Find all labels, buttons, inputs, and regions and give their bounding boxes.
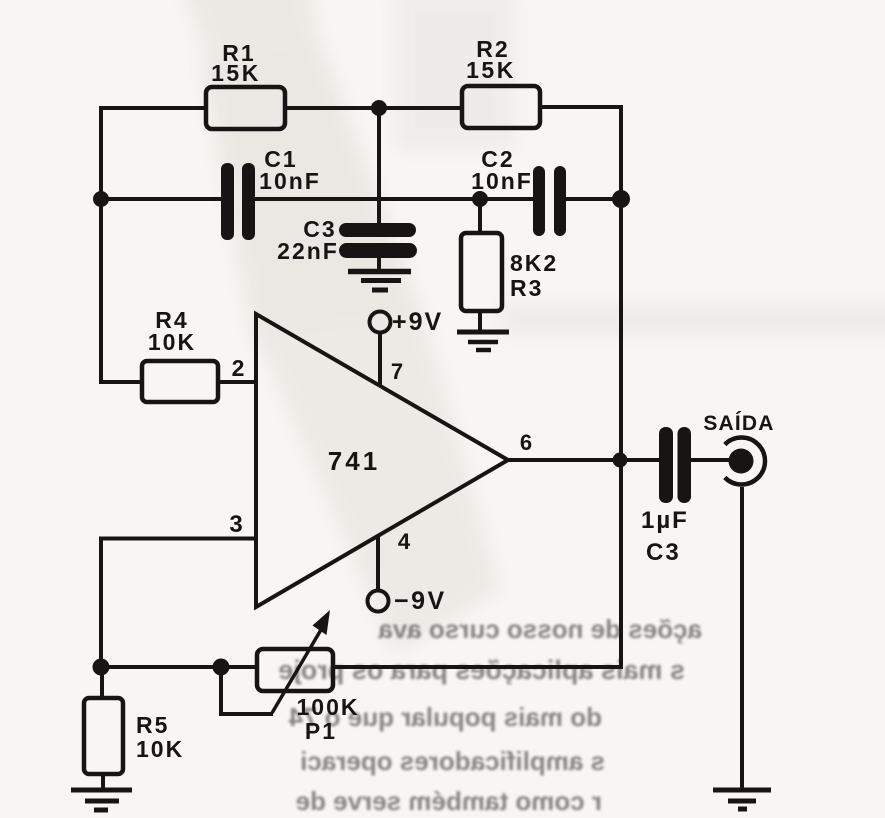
wire R3 ground stub <box>478 310 482 331</box>
wire right vertical feedback <box>619 106 623 669</box>
svg-text:10K: 10K <box>148 329 196 355</box>
node junction top rail <box>371 100 387 116</box>
ground below jack <box>713 790 771 809</box>
wire C3 ground stub <box>377 252 381 269</box>
node junction P1 wiper <box>213 659 230 676</box>
node junction right rail2 <box>612 190 630 208</box>
resistor R5 <box>84 698 184 774</box>
ground below R5 <box>71 790 132 810</box>
wire R3 top lead <box>478 199 482 234</box>
svg-text:s amplificadores operaci: s amplificadores operaci <box>300 746 605 776</box>
svg-text:7: 7 <box>391 359 403 384</box>
op-amp U1 741 <box>229 314 532 607</box>
capacitor C3 1uF output <box>641 427 691 566</box>
svg-text:15K: 15K <box>211 60 261 86</box>
svg-text:22nF: 22nF <box>277 238 339 264</box>
svg-text:10nF: 10nF <box>259 168 321 194</box>
svg-text:P1: P1 <box>305 718 337 744</box>
capacitor C1 <box>221 146 321 240</box>
bleed-through text from reverse page (mirrored) <box>278 614 702 816</box>
output jack SAIDA <box>703 412 774 484</box>
ground below C3 <box>348 272 411 291</box>
-9V supply terminal <box>368 587 447 615</box>
svg-text:1µF: 1µF <box>641 507 689 534</box>
wire bottom rail right <box>332 665 623 669</box>
capacitor C3 22nF <box>277 216 417 264</box>
+9V supply terminal <box>370 308 444 336</box>
node junction left rail2 <box>93 191 109 207</box>
svg-text:SAÍDA: SAÍDA <box>703 412 774 435</box>
wire R4 right lead to pin 2 <box>218 380 254 384</box>
wire pin 3 lead <box>101 537 254 541</box>
wire top rail right <box>540 105 623 109</box>
wire second rail right <box>565 197 621 201</box>
wire P1 wiper loop <box>221 668 273 714</box>
resistor R3 <box>461 233 558 311</box>
paper shading wash <box>180 0 885 655</box>
wire pin 7 supply <box>378 333 382 385</box>
svg-text:4: 4 <box>398 529 411 554</box>
wire output lead <box>506 458 659 462</box>
wire R4 left lead <box>99 380 142 384</box>
wire top rail left <box>100 106 206 110</box>
resistor R2 <box>462 36 540 128</box>
svg-text:741: 741 <box>328 446 380 476</box>
node junction output <box>613 453 628 468</box>
svg-text:100K: 100K <box>297 694 360 720</box>
potentiometer P1 <box>257 610 359 744</box>
wire R5 ground stub <box>101 773 105 790</box>
svg-text:6: 6 <box>520 430 532 455</box>
node junction C2-R3 <box>472 191 488 207</box>
wire left vertical lower <box>99 537 103 669</box>
wire left vertical upper <box>99 106 103 384</box>
capacitor C2 <box>471 146 566 236</box>
svg-text:10nF: 10nF <box>471 168 533 194</box>
wire bottom rail left <box>99 665 258 669</box>
node junction bottom left <box>93 659 110 676</box>
svg-text:R5: R5 <box>136 712 169 738</box>
svg-text:15K: 15K <box>466 57 516 83</box>
svg-text:2: 2 <box>232 355 245 381</box>
wire jack ground <box>740 487 744 790</box>
svg-text:s mais aplicações para os proj: s mais aplicações para os proje <box>278 655 685 685</box>
wire pin 4 supply <box>376 537 380 591</box>
wire C3 branch vertical <box>377 108 381 226</box>
svg-text:C3: C3 <box>646 539 681 566</box>
svg-text:−9V: −9V <box>394 587 447 615</box>
wire output cap to jack <box>691 458 729 462</box>
resistor R4 <box>142 307 218 402</box>
svg-text:R3: R3 <box>510 275 543 301</box>
svg-text:r como também serve de: r como também serve de <box>296 786 602 816</box>
wire second rail left <box>99 197 222 201</box>
svg-text:8K2: 8K2 <box>510 250 558 276</box>
ground below R3 <box>457 332 509 350</box>
svg-text:ações de nosso curso ava: ações de nosso curso ava <box>378 614 702 644</box>
svg-text:+9V: +9V <box>392 308 443 336</box>
wire second rail mid <box>254 197 534 201</box>
wire top rail mid <box>284 106 463 110</box>
svg-text:3: 3 <box>229 511 242 538</box>
resistor R1 <box>206 40 285 129</box>
svg-text:10K: 10K <box>136 736 184 762</box>
wire R5 top lead <box>100 667 104 698</box>
